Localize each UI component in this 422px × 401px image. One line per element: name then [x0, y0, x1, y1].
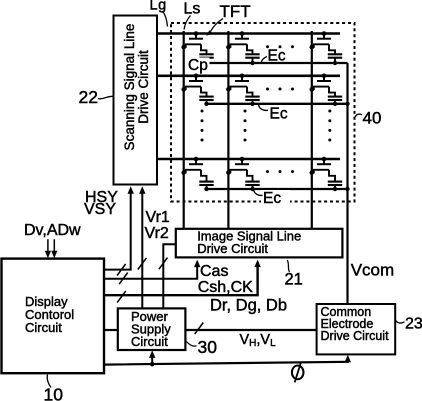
svg-text:22: 22 — [79, 87, 98, 107]
svg-text:Lg: Lg — [150, 0, 167, 14]
pixel array dashed border (40) — [171, 23, 355, 202]
leader for 10 — [47, 375, 51, 388]
wire data line Ls col2 — [227, 31, 229, 229]
label phi — [292, 363, 304, 383]
svg-text:Drive Circuit: Drive Circuit — [136, 50, 151, 124]
label Lg — [150, 0, 167, 14]
transistor TFT pixel cell row3 col1 with capacitor — [181, 157, 213, 192]
leader arrow for TFT — [206, 19, 223, 36]
node Ec2-Vcom junction — [345, 102, 349, 106]
image signal line drive circuit box U21 — [176, 228, 343, 257]
reference numeral 23 — [405, 316, 422, 333]
label HSY — [85, 189, 118, 206]
leader for 40 — [355, 114, 363, 119]
svg-text:Cp: Cp — [188, 57, 208, 74]
wire common electrode line Ec row1 — [207, 62, 348, 64]
label Cas — [200, 263, 228, 280]
bus tick on VH,VL wire — [195, 323, 204, 335]
ellipsis dots vertical col3 — [328, 110, 331, 142]
svg-text:Vcom: Vcom — [351, 260, 394, 279]
ellipsis dots horizontal row2 — [266, 88, 294, 91]
leader for Lg — [163, 11, 168, 27]
svg-text:40: 40 — [363, 109, 382, 128]
svg-text:Scanning Signal Line: Scanning Signal Line — [122, 24, 137, 151]
transistor TFT pixel cell row3 col3 with capacitor — [310, 157, 343, 192]
wire phi line from display control to common electrode circuit — [104, 355, 351, 365]
node phi junction — [150, 362, 155, 367]
leader for Ec row2 — [259, 105, 269, 111]
leader for 23 — [395, 320, 404, 323]
label Ec row2 — [270, 105, 288, 122]
leader for Ls — [184, 16, 191, 30]
label Ec row3 — [261, 190, 290, 207]
label Cp — [187, 57, 210, 74]
svg-text:Circuit: Circuit — [131, 334, 168, 349]
svg-text:Circuit: Circuit — [25, 320, 62, 335]
bus tick on Dr,Dg,Db bus — [117, 291, 126, 303]
label Vcom — [351, 260, 394, 279]
leader for Ec row3 — [254, 190, 263, 196]
ellipsis dots horizontal row3 — [266, 170, 294, 173]
reference numeral 22 — [79, 87, 98, 107]
scanning signal line drive circuit box U22 — [114, 16, 158, 185]
wire HSY/VSY bus from display control to scanning circuit — [104, 186, 134, 269]
transistor TFT pixel cell row2 col2 with capacitor — [226, 74, 260, 107]
label Csh,CK — [198, 279, 253, 296]
ellipsis dots horizontal row1 — [266, 45, 294, 48]
bus tick on HSY/VSY wire — [117, 264, 126, 276]
display control circuit box U10 — [2, 259, 105, 374]
label VSY — [84, 201, 116, 218]
wire common electrode line Ec row2 — [207, 103, 348, 105]
svg-text:21: 21 — [285, 271, 303, 289]
common electrode drive circuit box U23 — [317, 304, 396, 354]
wire data line Ls col1 — [183, 31, 185, 229]
leader for Ec row1 — [261, 57, 267, 63]
bus tick on Cas bus — [119, 273, 128, 285]
leader for 21 — [287, 260, 289, 272]
label TFT — [220, 2, 251, 21]
svg-text:Ec: Ec — [270, 105, 288, 122]
bus tick on Vr1 wire — [138, 258, 147, 270]
label Vr1 — [146, 209, 170, 226]
wire display control to power supply — [104, 329, 118, 331]
svg-text:23: 23 — [405, 316, 422, 333]
wire Vr2 from power supply to image signal circuit — [163, 244, 176, 308]
reference numeral 40 — [363, 109, 382, 128]
node Ec3-Vcom junction — [345, 187, 349, 191]
svg-text:Ls: Ls — [184, 0, 201, 17]
transistor TFT pixel cell row2 col3 with capacitor — [310, 74, 343, 107]
leader for 30 — [187, 342, 197, 347]
svg-text:Vr2: Vr2 — [145, 225, 169, 242]
svg-text:10: 10 — [44, 385, 64, 401]
wire gate line Lg row1 — [157, 32, 340, 35]
transistor TFT pixel cell row2 col1 with capacitor — [181, 74, 213, 107]
transistor TFT pixel cell row3 col2 with capacitor — [226, 157, 260, 192]
wire Cas,Csh,CK bus from display control to image signal circuit — [104, 260, 200, 279]
ellipsis dots vertical col1 — [201, 110, 204, 142]
label Ec row1 — [268, 47, 286, 64]
wire phi stub to power supply bottom — [149, 350, 155, 364]
ellipsis dots vertical col2 — [244, 110, 247, 142]
reference numeral 21 — [285, 271, 303, 289]
leader for 22 — [98, 96, 114, 99]
svg-text:Cas: Cas — [200, 263, 228, 280]
wire gate line Lg row2 — [157, 75, 340, 78]
reference numeral 10 — [44, 385, 64, 401]
svg-text:Drive Circuit: Drive Circuit — [321, 329, 390, 343]
transistor TFT pixel cell row1 col2 with capacitor — [226, 31, 260, 65]
wire Vr1 from power supply to scanning circuit — [139, 186, 145, 308]
label VH,VL — [240, 332, 277, 349]
svg-text:Dr, Dg, Db: Dr, Dg, Db — [210, 297, 287, 315]
label Vr2 — [145, 225, 169, 242]
wire gate line Lg row3 — [157, 158, 340, 161]
wire Dr,Dg,Db bus from display control to image signal circuit — [104, 260, 261, 296]
svg-text:Ec: Ec — [263, 190, 281, 207]
wire common electrode line Ec row3 — [207, 188, 348, 190]
svg-text:VH,VL: VH,VL — [240, 332, 277, 349]
svg-text:Ec: Ec — [268, 47, 286, 64]
wire data line Ls col3 — [311, 31, 313, 229]
svg-text:30: 30 — [198, 337, 218, 357]
svg-text:Vr1: Vr1 — [146, 209, 170, 226]
transistor TFT pixel cell row1 col1 with capacitor — [181, 31, 213, 65]
svg-text:Csh,CK: Csh,CK — [198, 279, 253, 296]
label Dr, Dg, Db — [210, 297, 287, 315]
svg-text:TFT: TFT — [220, 2, 251, 21]
transistor TFT pixel cell row1 col3 with capacitor — [310, 31, 343, 65]
svg-text:VSY: VSY — [84, 201, 116, 218]
svg-text:Dv,ADw: Dv,ADw — [24, 222, 81, 239]
power supply circuit box U30 — [118, 308, 186, 350]
reference numeral 30 — [198, 337, 218, 357]
label Dv,ADw — [24, 222, 81, 239]
label Ls — [184, 0, 201, 17]
wire VH,VL from power supply to common electrode circuit — [185, 329, 316, 331]
svg-text:Drive Circuit: Drive Circuit — [197, 241, 268, 256]
wire Dv,ADw input double arrow — [45, 239, 58, 258]
bus tick on Vr2 wire — [159, 258, 168, 270]
wire Vcom line — [346, 63, 348, 304]
